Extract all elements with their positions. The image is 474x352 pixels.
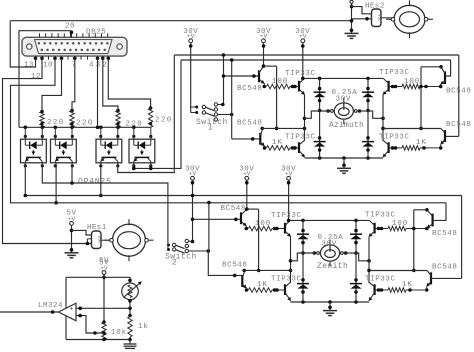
wire 5V rail LM324: [103, 274, 105, 322]
ground HEs1: [65, 252, 79, 254]
svg-text:1K: 1K: [257, 281, 268, 289]
connector mounting hole left: [27, 44, 32, 49]
wire pin12 down left side to HEs1: [3, 58, 92, 243]
resistor R9 100 zenith left: [249, 226, 273, 231]
wire bus A: [25, 195, 461, 197]
wire motor M4 right terminal: [343, 252, 358, 254]
wire top rail to LDR: [104, 277, 130, 283]
wire feedback box left: [65, 277, 67, 339]
op-amp U1 LM324: [59, 303, 77, 321]
junction pin 12: [40, 57, 44, 61]
transistor Q12 TIP33C zenith lower-left power: [284, 284, 286, 295]
svg-text:7: 7: [72, 62, 77, 70]
wire op-amp plus input: [76, 307, 130, 309]
junction diode nodes zenith: [301, 251, 305, 255]
svg-text:TIP33C: TIP33C: [271, 212, 302, 220]
diode D3 azimuth upper-right: [367, 78, 369, 158]
svg-text:BC548: BC548: [237, 120, 263, 128]
resistor R3 220: [116, 109, 120, 113]
wire pin2 to resistor R4: [108, 58, 150, 108]
svg-text:BC548: BC548: [432, 230, 458, 238]
svg-text:DB25: DB25: [86, 29, 106, 37]
connector pins row 1 (pins 1-13): [38, 42, 41, 45]
wire LDR to divider node: [129, 300, 131, 317]
svg-text:13: 13: [24, 62, 34, 70]
transistor Q13 TIP33C zenith upper-right power: [374, 223, 376, 234]
svg-text:100: 100: [392, 220, 408, 228]
resistor R10 1K zenith left: [249, 288, 273, 293]
wire switch2 riser to Q10 base: [233, 274, 237, 278]
wire zenith bottom rail: [291, 301, 370, 303]
svg-text:-: -: [69, 315, 73, 322]
svg-text:+: +: [69, 306, 73, 313]
diode D1 azimuth upper-left: [319, 78, 321, 158]
wire Q9 emitter to R9: [245, 226, 247, 229]
svg-text:TIP33C: TIP33C: [365, 276, 396, 284]
svg-text:1: 1: [208, 124, 213, 133]
transistor Q16 BC548 zenith lower-right: [430, 272, 432, 284]
ground HEs2: [345, 32, 359, 34]
svg-text:30V: 30V: [336, 95, 352, 103]
diode D5 zenith upper-left: [302, 220, 304, 302]
optocoupler U4 OP4N25: [96, 139, 122, 163]
resistor R8 1K azimuth right: [389, 147, 402, 149]
optocoupler U2 OP4N25: [21, 139, 47, 163]
svg-text:220: 220: [155, 117, 173, 125]
junction pin 10: [53, 57, 57, 61]
svg-text:TIP33C: TIP33C: [379, 69, 410, 77]
wire HEs1 box to motor: [101, 239, 111, 241]
wire HEs2 box to motor: [381, 17, 393, 19]
junction pin 2: [107, 57, 111, 61]
svg-text:HEs1: HEs1: [87, 224, 107, 232]
wire bus B riser to zenith Q10 base: [208, 203, 210, 252]
junction resistor bottom leads: [40, 122, 43, 125]
svg-text:OP4N25: OP4N25: [78, 178, 112, 187]
junction bus A left: [24, 194, 28, 198]
wire op-amp minus input: [76, 316, 104, 333]
photoresistor LDR R15: [128, 279, 132, 283]
switch SW2 Switch 2: [167, 244, 170, 247]
svg-text:1K: 1K: [402, 281, 413, 289]
transistor Q1 BC548 azimuth upper-left: [258, 70, 260, 82]
transistor Q15 BC548 zenith upper-right: [432, 214, 434, 227]
wire 1k to ground: [129, 337, 131, 344]
connector J1 DB25 body: [22, 37, 127, 56]
wire pin10 down left side to lower bus B: [11, 58, 447, 203]
resistor R12 1K zenith right: [375, 289, 388, 291]
sensor HEs1 box: [92, 231, 102, 249]
svg-text:20: 20: [65, 23, 75, 31]
transistor Q14 TIP33C zenith lower-right power: [374, 284, 376, 295]
svg-text:TIP33C: TIP33C: [271, 276, 302, 284]
svg-text:BC548: BC548: [222, 262, 248, 270]
wire bus B to Q15 base: [433, 203, 446, 221]
wire pin 20 riser: [71, 31, 73, 38]
wire azimuth bottom rail: [305, 157, 384, 159]
wire feedback box top: [66, 276, 104, 278]
sensor HEs2 box: [372, 9, 382, 27]
wire op-amp output to left edge: [0, 311, 59, 313]
wire motor M1 right terminal: [357, 110, 373, 112]
junction LED bus nodes: [24, 126, 28, 130]
ground zenith bridge: [329, 302, 331, 311]
optocoupler U5 OP4N25: [129, 139, 155, 163]
diode D6 zenith lower-left: [297, 283, 309, 285]
resistor R4 220: [149, 106, 153, 110]
wire opto U2 collector to switch 2 feed: [42, 163, 168, 243]
wire pin3 to resistor R3: [103, 58, 118, 110]
svg-text:100: 100: [272, 78, 288, 86]
transistor Q7 BC548 azimuth upper-right: [444, 71, 446, 84]
wire bus2 to Q7 base: [445, 60, 451, 76]
wire top bus to HEs2: [10, 20, 351, 22]
junction pin 7: [73, 57, 77, 61]
diode D8 zenith lower-right: [350, 283, 362, 285]
transistor Q3 TIP33C azimuth upper-left power: [298, 81, 300, 92]
transistor Q10 BC548 zenith lower-left: [241, 275, 243, 287]
wire motor left column zenith: [290, 237, 292, 283]
switch SW1 Switch 1: [191, 106, 197, 108]
optocoupler U3 OP4N25: [51, 139, 77, 163]
wire Q2 emitter to R6: [264, 146, 266, 148]
motor M1 azimuth 0.25A 30V: [334, 103, 353, 119]
svg-text:12: 12: [31, 73, 41, 81]
junction diode nodes azimuth: [318, 109, 322, 113]
wire motor right column azimuth: [382, 95, 384, 141]
junction pin 13: [34, 57, 38, 61]
wire pin7 to resistor R2: [72, 58, 75, 110]
ground azimuth bridge: [343, 158, 345, 168]
wire V5 to Q9 collector: [246, 180, 248, 209]
wire motor left column azimuth: [304, 95, 306, 141]
junction pin 9: [60, 57, 64, 61]
svg-text:TIP33C: TIP33C: [379, 134, 410, 142]
svg-text:BC548: BC548: [237, 85, 263, 93]
transistor Q9 BC548 zenith upper-left: [240, 212, 242, 224]
connector mounting hole right: [117, 44, 122, 49]
wire HEs2 column: [351, 3, 353, 33]
svg-text:220: 220: [76, 120, 94, 128]
wire Q2 collector link: [261, 128, 263, 130]
wire Q1 emitter to R5: [263, 83, 265, 87]
wire motor M1 left terminal: [311, 110, 330, 112]
wire Q10 emitter to R10: [246, 288, 248, 290]
wire crossover right zenith: [413, 210, 415, 271]
wire HEs2 feed lower: [352, 18, 372, 20]
wire opto U4 collector to bus1 riser: [118, 55, 175, 173]
wire HEs1 column: [71, 225, 73, 253]
diode D2 azimuth lower-left: [314, 141, 326, 143]
wire motor M4 left terminal: [297, 252, 316, 254]
wire pin20 to left rail: [19, 31, 72, 128]
svg-text:BC548: BC548: [446, 121, 472, 129]
resistor R1 220: [40, 110, 44, 114]
wire bus1 branch to Q1 base: [224, 75, 260, 77]
svg-text:1k: 1k: [138, 323, 149, 331]
wire V4 to bus A and switch 2: [192, 180, 194, 242]
diode D7 zenith upper-right: [355, 220, 357, 302]
transistor Q11 TIP33C zenith upper-left power: [284, 223, 286, 234]
wire motor right column zenith: [368, 237, 370, 283]
wire zenith top rail: [290, 219, 369, 221]
wire pin9 to resistor R1: [42, 58, 62, 111]
transistor Q4 TIP33C azimuth lower-left power: [298, 142, 300, 153]
wire azimuth top rail: [304, 77, 383, 79]
wire bus1 upper: [174, 54, 459, 56]
wire V3 to azimuth top rail: [302, 42, 304, 78]
svg-text:100: 100: [404, 78, 420, 86]
wire pin4 to LED bus: [97, 58, 99, 127]
resistor R5 100: [267, 84, 291, 89]
wire opto U4 emitter to bus A: [100, 163, 102, 196]
svg-text:BC548: BC548: [221, 205, 247, 213]
resistor R13 10k: [102, 322, 106, 340]
wire crossover left azimuth: [262, 64, 266, 68]
connector top pin stubs: [39, 33, 41, 37]
wire opto U5 pins to bus2 riser: [133, 163, 135, 169]
wire bus1 to right rail: [458, 55, 460, 136]
junction pin 3: [101, 57, 105, 61]
wire HEs1 feed mid: [87, 238, 91, 240]
svg-text:432: 432: [89, 62, 109, 70]
wire V2 to Q1 collector: [263, 42, 265, 66]
wire switch2 throw to Q10 base riser: [189, 250, 209, 252]
wire opto U3 emitter to bus B: [55, 163, 57, 203]
resistor R6 1K: [267, 146, 291, 151]
resistor R11 100 zenith right: [375, 228, 388, 230]
wire bottom rail: [66, 339, 130, 341]
svg-text:TIP33C: TIP33C: [285, 134, 316, 142]
wire V6 to zenith top rail: [288, 180, 290, 221]
svg-text:TIP33C: TIP33C: [285, 70, 316, 78]
transistor Q5 TIP33C azimuth upper-right power: [388, 81, 390, 92]
wire LED bus under resistors: [19, 126, 151, 128]
svg-text:2: 2: [172, 259, 177, 268]
svg-text:10k: 10k: [111, 329, 127, 337]
wire bus A right rail: [461, 196, 463, 279]
power 5V supply for HEs2: [350, 0, 353, 3]
wire opto U3 collector join: [71, 163, 73, 183]
wire bus A tap to Q9 base: [193, 218, 242, 220]
transistor Q8 BC548 azimuth lower-right: [444, 130, 446, 142]
svg-text:BC548: BC548: [432, 264, 458, 272]
resistor R2 220: [70, 109, 74, 113]
svg-text:Azimuth: Azimuth: [329, 121, 364, 130]
wire HEs1 feed upper: [72, 230, 92, 235]
diode D4 azimuth lower-right: [362, 141, 374, 143]
svg-text:100: 100: [255, 220, 271, 228]
svg-text:1K: 1K: [272, 139, 283, 147]
wire HEs2 feed upper: [352, 7, 372, 14]
motor M2 HEs1 drive: [113, 224, 146, 256]
svg-text:Switch: Switch: [165, 253, 197, 262]
wire bus1 to switch1 throw: [223, 55, 225, 105]
wire Q16 base from right rail: [431, 277, 462, 279]
wire crossover right azimuth: [420, 67, 422, 129]
svg-text:1K: 1K: [416, 139, 427, 147]
transistor Q6 TIP33C azimuth lower-right power: [388, 142, 390, 153]
wire Q10 collector link: [243, 270, 245, 272]
ground LM324 divider: [124, 343, 137, 345]
wire opto U2 emitter to bus A: [24, 163, 26, 196]
junction pin 4: [96, 57, 100, 61]
junction pin 20: [70, 31, 74, 35]
wire bus2 upper: [181, 59, 451, 61]
svg-text:30V: 30V: [322, 240, 338, 248]
wire V1 to switch 1: [190, 42, 192, 112]
wire crossover left zenith: [245, 207, 249, 211]
resistor R7 100 azimuth right: [389, 86, 402, 88]
svg-text:LM324: LM324: [38, 302, 63, 310]
wire bus2 to Q2 base: [231, 60, 233, 139]
wire bus A to switch2 throw: [189, 240, 193, 243]
connector bottom pin stubs: [35, 56, 37, 60]
motor M3 HEs2 drive: [394, 5, 425, 33]
resistor R14 1k: [128, 317, 132, 338]
svg-text:10: 10: [43, 62, 53, 70]
wire switch1 throw to bus2 riser: [218, 114, 232, 116]
wire Q8 base from right rail: [445, 135, 459, 137]
svg-text:TIP33C: TIP33C: [365, 212, 396, 220]
motor M4 zenith 0.25A 30V: [320, 245, 339, 261]
svg-text:Zenith: Zenith: [317, 262, 348, 271]
connector pins row 2 (pins 14-25): [41, 49, 44, 52]
transistor Q2 BC548 azimuth lower-left: [259, 133, 261, 145]
wire pin13 up-and-over to top bus: [10, 21, 35, 67]
svg-text:HEs2: HEs2: [365, 3, 385, 11]
